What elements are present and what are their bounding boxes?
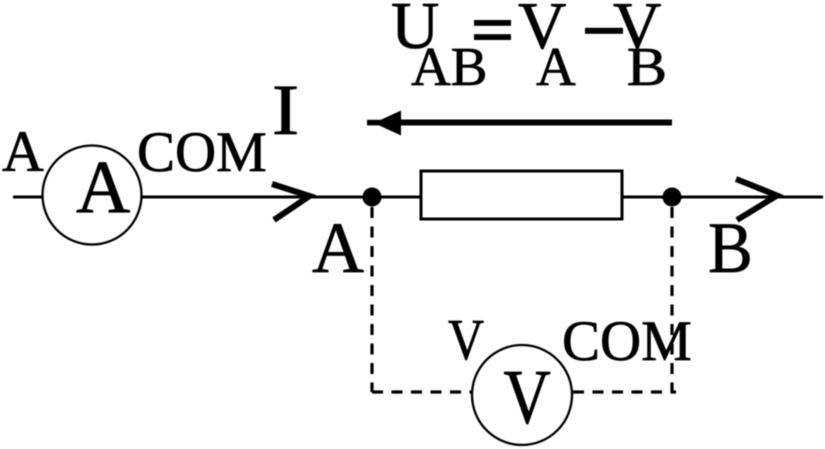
node A junction dot [363, 188, 382, 207]
svg-text:AB: AB [411, 36, 487, 97]
dashed wire from node A down [370, 207, 373, 392]
node B junction dot [663, 188, 682, 207]
current arrow (pointing left) [367, 111, 672, 136]
voltmeter U2 [472, 345, 572, 445]
ammeter U1 [43, 146, 142, 245]
terminal label V (voltmeter input) [448, 308, 484, 372]
wire arrow right [736, 179, 777, 220]
svg-text:B: B [627, 36, 667, 98]
svg-text:V: V [448, 308, 484, 372]
dashed wire voltmeter to node B leg [573, 390, 676, 393]
svg-text:I: I [272, 70, 300, 150]
resistor R [421, 171, 622, 219]
svg-text:A: A [312, 208, 364, 288]
svg-text:A: A [2, 119, 44, 184]
svg-text:COM: COM [562, 310, 692, 373]
minus sign [585, 28, 623, 34]
equals sign [474, 20, 511, 40]
formula V_A [518, 0, 576, 97]
formula V_B [613, 0, 667, 97]
wire ammeter to resistor [142, 196, 421, 199]
dashed wire to voltmeter left [372, 390, 472, 393]
svg-text:A: A [76, 146, 130, 229]
svg-text:A: A [536, 36, 576, 97]
wire resistor to right edge [622, 196, 823, 199]
formula U_AB [391, 0, 487, 97]
current label I [272, 70, 300, 150]
wire arrow left (current direction) [272, 184, 310, 220]
svg-text:B: B [708, 209, 753, 289]
svg-text:V: V [504, 355, 551, 440]
node label B [708, 209, 753, 289]
svg-text:COM: COM [137, 121, 267, 184]
wire left stub [13, 196, 43, 199]
dashed wire from node B down [670, 207, 673, 392]
